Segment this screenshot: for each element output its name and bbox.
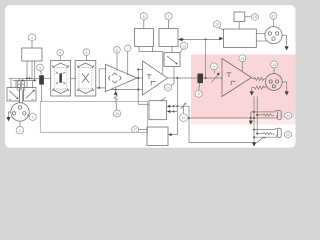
- wire jack2 sleeve bus: [188, 117, 266, 144]
- label circle 17 above XLR J2: [270, 12, 277, 26]
- wire control drop into amp A3: [205, 39, 207, 78]
- wire M1 arrow feed: [170, 105, 189, 107]
- wire J3 right to ground: [282, 82, 289, 96]
- enclosure box (power section): [40, 101, 147, 132]
- svg-text:6: 6: [143, 15, 145, 19]
- highlight region (pink) main: [191, 54, 296, 118]
- connector XLR J2 (top right): [265, 27, 282, 44]
- label hexagon 2 at J1: [27, 113, 36, 121]
- label circle 6b: [114, 47, 121, 71]
- wire SW2 down to jack bus: [188, 106, 190, 142]
- trimmer arrow (level adjust): [212, 73, 220, 83]
- gain cell block G1: [51, 60, 71, 96]
- label hexagon 20 right of J5: [285, 131, 292, 138]
- label hexagon 13 near SW1: [180, 42, 187, 53]
- label circle 3b (above bead): [37, 64, 44, 75]
- block TSB (small top box): [234, 12, 245, 29]
- svg-text:7: 7: [127, 47, 129, 51]
- svg-text:13: 13: [182, 44, 186, 48]
- wire G1 to G2: [71, 77, 76, 79]
- ferrite bead FB2 (black, in pink): [197, 74, 203, 84]
- label circle 10 below VR1: [114, 102, 121, 118]
- wire A1 output: [137, 77, 143, 79]
- block T1 (top): [135, 29, 154, 47]
- switch block S1 (pad): [7, 78, 20, 101]
- block T2 (top): [159, 29, 178, 47]
- wire SW1 bottom to hexagon 6c: [171, 67, 174, 86]
- ground arrow at J1: [6, 112, 10, 121]
- label hexagon 6 above T1: [140, 12, 147, 28]
- wire G2 output to amp A1: [96, 69, 106, 89]
- block B1 (input network box): [22, 48, 42, 61]
- switch box SW1: [164, 47, 180, 67]
- jack rail A: [250, 112, 252, 121]
- wire rail node B: [13, 79, 36, 81]
- transformer T1: [17, 78, 25, 103]
- label hexagon 16: [214, 20, 224, 30]
- svg-text:1: 1: [19, 129, 21, 133]
- jack J4 (line out, in pink): [250, 110, 281, 119]
- svg-text:3: 3: [31, 36, 33, 40]
- junction dot M1 feed: [176, 105, 178, 107]
- label hexagon 18 right of TSB: [245, 13, 258, 20]
- white schematic card: [5, 5, 296, 148]
- svg-text:14: 14: [240, 57, 244, 61]
- connector XLR input J1: [11, 103, 29, 121]
- svg-text:2: 2: [32, 116, 34, 120]
- svg-text:16: 16: [215, 23, 219, 27]
- svg-text:20: 20: [286, 133, 290, 137]
- label circle 1 below J1: [16, 121, 23, 134]
- wires TB to J2: [256, 33, 265, 35]
- ferrite bead FB1 (black): [39, 75, 44, 84]
- label hexagon 7 above T2: [165, 12, 172, 28]
- arrow into M1: [167, 105, 171, 108]
- svg-text:10: 10: [166, 86, 170, 90]
- junction dot at control drop: [205, 77, 207, 79]
- svg-text:9: 9: [213, 65, 215, 69]
- label circle 15 above J3: [271, 61, 278, 74]
- svg-text:6: 6: [116, 48, 118, 52]
- svg-text:17: 17: [272, 14, 276, 18]
- label hexagon 19 right of J4: [285, 112, 292, 119]
- wire B1 stub left: [26, 61, 28, 88]
- wire side branch down to M2: [172, 78, 178, 135]
- op-amp A1 (VCA): [105, 64, 137, 91]
- wire FB1 down to bottom bus: [41, 85, 43, 102]
- arrow into block TB: [219, 37, 223, 41]
- connector XLR J3 (output, in pink): [265, 74, 282, 91]
- svg-text:12: 12: [133, 128, 137, 132]
- op-amp A3 (in pink): [222, 59, 252, 97]
- svg-text:10: 10: [115, 112, 119, 116]
- label circle 14 above A3: [239, 55, 246, 72]
- svg-text:4: 4: [59, 51, 61, 55]
- svg-text:11: 11: [182, 116, 186, 120]
- junction dots left rails: [26, 77, 28, 79]
- svg-text:3: 3: [39, 66, 41, 70]
- resistor R1 at A3 output: [252, 77, 266, 80]
- junction node at x187.7: [176, 77, 178, 79]
- wire T1 bottom to A2 control: [139, 47, 163, 74]
- wire FB2 to trimmer: [203, 77, 222, 79]
- variable resistor VR1 below A1: [114, 91, 118, 102]
- ground arrow below jack1: [249, 121, 253, 125]
- wire B1 stub right: [34, 61, 36, 80]
- wire A2 output into highlighted section: [168, 77, 198, 79]
- label hexagon 12 left of M2: [132, 126, 147, 133]
- wire rail node A: [9, 77, 51, 79]
- block M2 (power): [147, 127, 168, 146]
- label circle 4: [57, 49, 64, 60]
- label circle 9 above trimmer: [211, 63, 218, 74]
- svg-text:18: 18: [253, 15, 257, 19]
- svg-text:8: 8: [198, 92, 200, 96]
- wire jack1 sleeve bus: [189, 117, 276, 119]
- wire control bus y39 with arrow into T2: [178, 38, 219, 42]
- wire B1 stub mid: [31, 61, 33, 80]
- jack rail C: [256, 97, 258, 134]
- wire T1 bottom stub 2: [152, 47, 154, 52]
- svg-text:19: 19: [286, 114, 290, 118]
- switch SW2: [181, 103, 187, 109]
- jack rail B: [253, 97, 255, 143]
- svg-text:5: 5: [85, 51, 87, 55]
- op-amp A2: [143, 61, 168, 95]
- arrow into M2: [168, 133, 172, 136]
- label hexagon 8 below FB2: [195, 83, 202, 97]
- gain cell block G2: [75, 60, 96, 96]
- label hexagon 3 above B1: [29, 33, 36, 48]
- label circle 5: [83, 49, 90, 61]
- block M1 (meter driver): [149, 101, 167, 120]
- highlight region (pink) lower strip: [191, 118, 296, 124]
- switch block S2 (lift): [23, 80, 36, 101]
- resistor R2 to ground: [250, 86, 267, 96]
- label circle 7b: [124, 45, 131, 75]
- ground arrow below jack2: [252, 143, 256, 147]
- label circle 11: [180, 106, 188, 121]
- page background: [0, 0, 300, 155]
- block TB (output driver): [224, 29, 257, 48]
- node feedback verticals at A2 input: [111, 68, 149, 104]
- svg-text:7: 7: [168, 15, 170, 19]
- jack J5 (line out 2): [253, 128, 281, 138]
- svg-text:15: 15: [272, 63, 276, 67]
- wire J2 to ground: [282, 35, 289, 50]
- label hexagon 6c below SW1: [165, 84, 172, 92]
